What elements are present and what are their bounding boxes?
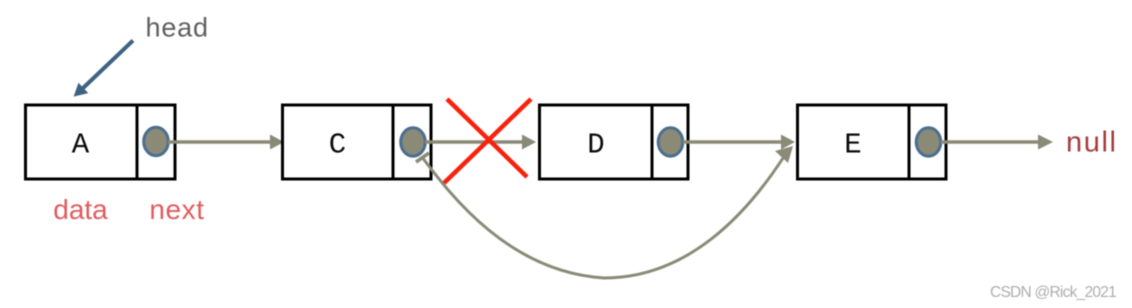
- wire E to null: [941, 135, 1053, 150]
- wire A to C: [168, 135, 284, 150]
- node E data label "E": [844, 129, 861, 162]
- node D pointer circle: [658, 128, 683, 156]
- node E pointer circle: [916, 128, 941, 156]
- wire D to E: [683, 135, 795, 150]
- svg-text:E: E: [844, 129, 861, 162]
- svg-text:next: next: [149, 194, 204, 225]
- svg-text:D: D: [587, 129, 604, 162]
- wire C to E bypass curve: [416, 146, 793, 278]
- head label: [146, 13, 209, 43]
- node D data label "D": [587, 129, 604, 162]
- node C data label "C": [329, 129, 346, 162]
- svg-text:data: data: [53, 194, 108, 225]
- svg-text:A: A: [72, 129, 90, 162]
- null label: [1066, 127, 1118, 159]
- red X delete mark: [444, 99, 531, 183]
- next label: [149, 194, 204, 225]
- node A pointer circle: [144, 127, 169, 155]
- svg-text:null: null: [1066, 127, 1118, 159]
- node A box: [26, 104, 176, 179]
- svg-text:C: C: [329, 129, 346, 162]
- node C box: [283, 104, 432, 179]
- wire C to D (crossed out): [425, 135, 536, 150]
- watermark CSDN @Rick_2021: [990, 284, 1116, 301]
- svg-text:head: head: [146, 13, 209, 43]
- node A data label "A": [72, 129, 90, 162]
- svg-text:CSDN @Rick_2021: CSDN @Rick_2021: [990, 284, 1116, 301]
- node E box: [798, 104, 947, 179]
- data label: [53, 194, 108, 225]
- node C pointer circle: [401, 128, 426, 156]
- head pointer arrow: [74, 41, 133, 97]
- node D box: [540, 104, 689, 179]
